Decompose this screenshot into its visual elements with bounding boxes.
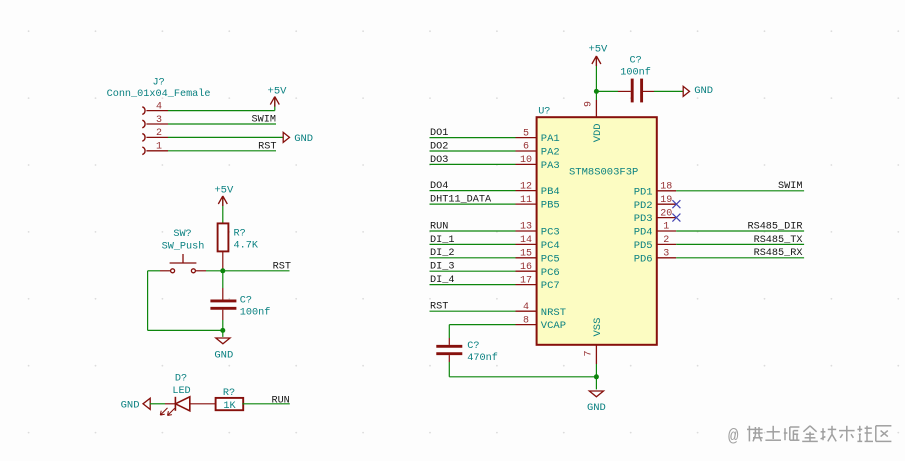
wire resistor R2 to RUN label [242, 403, 289, 405]
ground symbol left-pointing (LED) [143, 398, 150, 409]
svg-text:DI_2: DI_2 [430, 248, 454, 259]
svg-text:15: 15 [520, 249, 532, 260]
svg-text:SW?: SW? [173, 229, 191, 240]
capacitor C3 bottom plate [436, 352, 462, 355]
wire capacitor C1 to GND [643, 90, 683, 92]
svg-text:RS485_TX: RS485_TX [754, 235, 803, 246]
svg-text:+5V: +5V [214, 184, 234, 196]
wire switch right to junction [206, 270, 223, 272]
svg-text:PD1: PD1 [634, 186, 653, 198]
MCU U1 pin 16 PC6 stub [516, 270, 537, 272]
MCU U1 pin 18 PD1 stub [657, 190, 676, 192]
wire from J1 pin 2 [168, 136, 283, 138]
svg-text:DO1: DO1 [430, 128, 448, 139]
svg-text:R?: R? [223, 388, 235, 399]
MCU U1 pin 20 PD3 stub [657, 217, 676, 219]
svg-text:2: 2 [156, 128, 162, 139]
svg-text:3: 3 [663, 249, 669, 260]
svg-text:470nf: 470nf [467, 352, 498, 364]
wire pin 1 to net RS485_DIR [676, 230, 804, 232]
wire GND to LED cathode [150, 403, 165, 405]
MCU U1 body STM8S003F3P [537, 117, 657, 345]
svg-text:RUN: RUN [271, 395, 289, 406]
wire net DO3 to pin 10 [430, 163, 516, 165]
svg-text:1: 1 [663, 222, 669, 233]
svg-text:VCAP: VCAP [541, 320, 566, 332]
svg-text:PC3: PC3 [541, 227, 560, 239]
svg-text:DI_4: DI_4 [430, 275, 454, 286]
svg-text:5: 5 [523, 128, 529, 139]
connector J1 pin 2 socket [142, 134, 145, 142]
svg-text:13: 13 [520, 222, 532, 233]
MCU U1 pin 19 PD2 stub [657, 203, 676, 205]
svg-text:R?: R? [234, 229, 246, 240]
switch SW1 actuator bar [170, 254, 197, 263]
svg-text:4.7K: 4.7K [234, 241, 259, 252]
LED D1 cathode bar [174, 397, 176, 411]
LED D1 cathode stub [165, 403, 175, 405]
MCU U1 pin 6 PA2 stub [516, 150, 537, 152]
capacitor C2 top plate [210, 299, 236, 302]
wire net DO2 to pin 6 [430, 150, 516, 152]
ground symbol (reset circuit) [216, 330, 230, 343]
svg-text:4: 4 [523, 302, 529, 313]
MCU U1 pin 13 PC3 stub [516, 230, 537, 232]
connector J1 pin 3 socket [142, 120, 145, 128]
svg-text:PC7: PC7 [541, 280, 560, 292]
svg-text:GND: GND [694, 85, 713, 97]
wire RST junction to label [223, 270, 290, 272]
power symbol +5V (reset circuit) [218, 196, 227, 223]
wire capacitor C3 to VSS junction [449, 355, 596, 377]
switch SW1 right contact [191, 269, 195, 273]
svg-text:PA2: PA2 [541, 147, 560, 159]
capacitor C3 top plate [436, 345, 462, 348]
wire net RUN to pin 13 [430, 230, 516, 232]
connector J1 pin 2 stub [146, 136, 168, 138]
resistor R2 (1K) body [216, 398, 244, 410]
svg-text:6: 6 [523, 142, 529, 153]
svg-text:PD5: PD5 [634, 240, 653, 252]
wire net RST to pin 4 [430, 310, 516, 312]
ground symbol right-pointing (C1) [683, 86, 689, 96]
power symbol +5V (MCU VDD) [592, 56, 601, 91]
svg-text:PB4: PB4 [541, 186, 560, 198]
capacitor C1 left plate [631, 79, 634, 103]
MCU U1 pin 2 PD5 stub [657, 243, 676, 245]
svg-text:14: 14 [520, 235, 532, 246]
svg-text:LED: LED [172, 386, 190, 397]
svg-text:100nf: 100nf [240, 307, 271, 319]
svg-text:PC5: PC5 [541, 253, 560, 265]
svg-text:C?: C? [467, 341, 479, 352]
svg-text:PD3: PD3 [634, 213, 653, 225]
connector J1 pin 1 socket [142, 147, 145, 155]
svg-text:PD2: PD2 [634, 200, 653, 212]
MCU U1 pin 15 PC5 stub [516, 257, 537, 259]
capacitor C2 bottom plate [210, 307, 236, 310]
MCU U1 pin 12 PB4 stub [516, 190, 537, 192]
MCU U1 pin 14 PC4 stub [516, 243, 537, 245]
svg-text:PA3: PA3 [541, 160, 560, 172]
resistor R1 (4.7K pull-up) body [218, 223, 229, 251]
wire net DI_2 to pin 15 [430, 257, 516, 259]
no-connect flag on pin 20 [672, 214, 680, 222]
svg-text:U?: U? [538, 107, 550, 118]
svg-text:DO4: DO4 [430, 181, 448, 192]
svg-text:VDD: VDD [592, 123, 604, 142]
power symbol +5V (connector) [270, 97, 279, 111]
svg-text:RS485_DIR: RS485_DIR [747, 221, 802, 232]
svg-text:PD4: PD4 [634, 227, 653, 239]
wire net DI_4 to pin 17 [430, 284, 516, 286]
svg-text:16: 16 [520, 262, 532, 273]
wire from J1 pin 1 [168, 150, 276, 152]
wire pin 3 to net RS485_RX [676, 257, 804, 259]
svg-text:RST: RST [258, 142, 276, 153]
connector J1 pin 3 stub [146, 123, 168, 125]
svg-text:C?: C? [240, 296, 252, 307]
wire net DO4 to pin 12 [430, 190, 516, 192]
svg-text:Conn_01x04_Female: Conn_01x04_Female [107, 88, 211, 100]
svg-text:19: 19 [660, 195, 672, 206]
svg-text:PD6: PD6 [634, 253, 653, 265]
wire resistor R1 bottom to RST junction [222, 251, 224, 270]
svg-text:PC6: PC6 [541, 267, 560, 279]
svg-text:GND: GND [121, 400, 140, 412]
svg-text:11: 11 [520, 195, 532, 206]
svg-text:10: 10 [520, 155, 532, 166]
svg-text:DO2: DO2 [430, 141, 448, 152]
svg-text:3: 3 [156, 115, 162, 126]
svg-text:DHT11_DATA: DHT11_DATA [430, 195, 492, 206]
MCU U1 pin 7 VSS stub [595, 345, 597, 377]
wire RST junction down to capacitor C2 [222, 271, 224, 300]
svg-text:SWIM: SWIM [252, 115, 276, 126]
svg-text:1K: 1K [223, 401, 236, 412]
junction bottom of reset circuit [220, 328, 225, 333]
switch SW1 left contact [171, 269, 175, 273]
svg-text:9: 9 [584, 101, 595, 107]
wire loop bottom horizontal [148, 329, 223, 331]
junction VSS node [594, 374, 599, 379]
LED D1 light arrows [160, 408, 174, 416]
wire loop vertical [147, 271, 149, 331]
svg-text:DI_3: DI_3 [430, 262, 454, 273]
MCU U1 pin 5 PA1 stub [516, 137, 537, 139]
svg-text:C?: C? [629, 56, 641, 67]
svg-text:STM8S003F3P: STM8S003F3P [569, 167, 638, 179]
svg-text:2: 2 [663, 235, 669, 246]
svg-text:12: 12 [520, 181, 532, 192]
ground symbol (MCU VSS) [589, 377, 603, 397]
wire LED anode to resistor R2 [190, 403, 216, 405]
svg-text:@: @ [728, 427, 739, 447]
svg-text:RUN: RUN [430, 221, 448, 232]
MCU U1 pin 4 NRST stub [516, 310, 537, 312]
svg-text:DI_1: DI_1 [430, 235, 454, 246]
wire net DO1 to pin 5 [430, 137, 516, 139]
svg-text:7: 7 [584, 350, 595, 356]
svg-text:DO3: DO3 [430, 155, 448, 166]
svg-text:+5V: +5V [588, 44, 608, 56]
wire pin 18 to net SWIM [676, 190, 804, 192]
junction RST node [220, 268, 225, 273]
svg-text:GND: GND [587, 402, 606, 414]
LED D1 triangle [175, 397, 189, 411]
watermark juejin community [728, 426, 891, 447]
svg-text:RST: RST [430, 302, 448, 313]
wire VCAP pin to capacitor C3 [449, 325, 515, 345]
svg-text:PC4: PC4 [541, 240, 560, 252]
MCU U1 pin 1 PD4 stub [657, 230, 676, 232]
svg-text:1: 1 [156, 142, 162, 153]
svg-text:17: 17 [520, 275, 532, 286]
junction VDD node [594, 89, 599, 94]
svg-text:PA1: PA1 [541, 133, 560, 145]
svg-text:100nf: 100nf [620, 67, 651, 79]
MCU U1 pin 17 PC7 stub [516, 284, 537, 286]
wire from J1 pin 4 [168, 110, 275, 112]
svg-text:+5V: +5V [268, 85, 288, 97]
MCU U1 pin 3 PD6 stub [657, 257, 676, 259]
connector J1 pin 4 socket [142, 107, 145, 115]
svg-text:GND: GND [214, 349, 233, 361]
wire net DI_1 to pin 14 [430, 243, 516, 245]
switch SW1 right pin stub [195, 270, 206, 272]
wire from J1 pin 3 [168, 123, 276, 125]
capacitor C1 right plate [640, 79, 643, 103]
switch SW1 left pin stub [160, 270, 171, 272]
svg-text:4: 4 [156, 101, 162, 112]
svg-text:SWIM: SWIM [778, 181, 802, 192]
svg-text:RST: RST [273, 261, 291, 272]
svg-text:D?: D? [175, 374, 187, 385]
svg-text:PB5: PB5 [541, 200, 560, 212]
svg-text:NRST: NRST [541, 307, 566, 319]
connector J1 pin 4 stub [146, 110, 168, 112]
wire net DI_3 to pin 16 [430, 270, 516, 272]
MCU U1 pin 11 PB5 stub [516, 203, 537, 205]
MCU U1 pin 10 PA3 stub [516, 163, 537, 165]
svg-text:18: 18 [660, 182, 672, 193]
power symbol GND right-pointing (connector) [283, 132, 289, 142]
svg-text:SW_Push: SW_Push [162, 240, 205, 252]
no-connect flag on pin 19 [672, 200, 680, 208]
wire switch left to loop corner [148, 270, 160, 272]
svg-text:8: 8 [523, 315, 529, 326]
MCU U1 pin 9 VDD stub [595, 91, 597, 117]
svg-text:20: 20 [660, 208, 672, 219]
wire pin 2 to net RS485_TX [676, 243, 804, 245]
svg-text:GND: GND [294, 133, 313, 145]
wire net DHT11_DATA to pin 11 [430, 203, 516, 205]
wire VDD junction to capacitor C1 [596, 90, 630, 92]
svg-text:RS485_RX: RS485_RX [754, 248, 803, 259]
svg-text:J?: J? [153, 78, 165, 89]
connector J1 pin 1 stub [146, 150, 168, 152]
svg-text:VSS: VSS [592, 318, 604, 337]
MCU U1 pin 8 VCAP stub [516, 324, 537, 326]
wire capacitor C2 to bottom junction [222, 310, 224, 331]
